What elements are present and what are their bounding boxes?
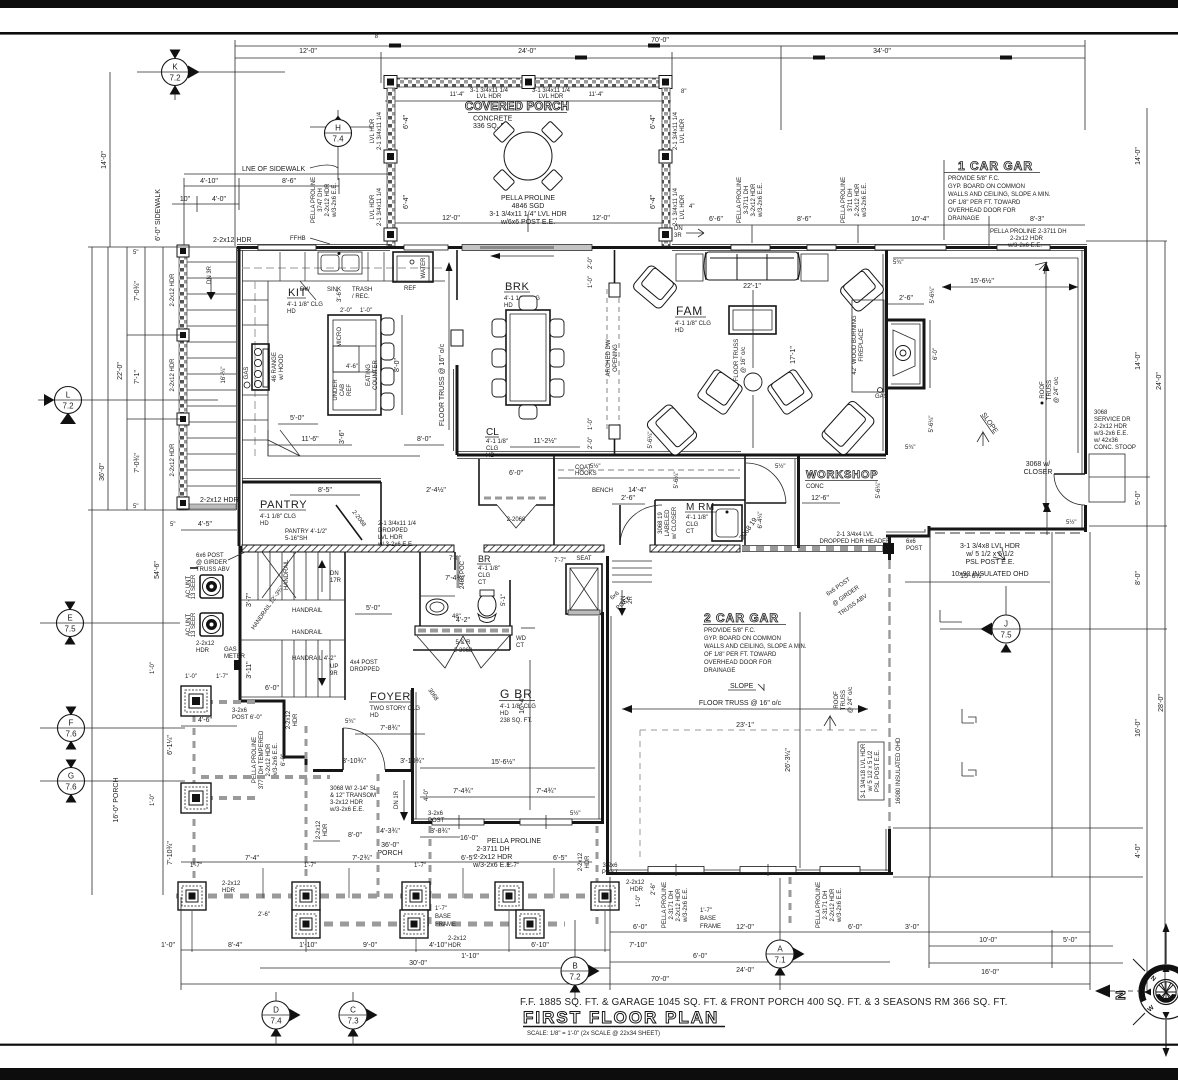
svg-text:OPENING: OPENING xyxy=(613,344,619,372)
svg-text:PELLA PROLINE: PELLA PROLINE xyxy=(487,838,541,845)
svg-text:HDR: HDR xyxy=(222,888,236,894)
svg-text:F.F. 1885 SQ. FT. & GARAGE 104: F.F. 1885 SQ. FT. & GARAGE 1045 SQ. FT. … xyxy=(520,997,1008,1008)
svg-text:2'-0": 2'-0" xyxy=(588,437,594,449)
svg-text:CLG: CLG xyxy=(686,522,699,528)
svg-text:POST: POST xyxy=(602,870,619,876)
fridge xyxy=(393,252,433,292)
svg-text:GYP. BOARD ON COMMON: GYP. BOARD ON COMMON xyxy=(948,184,1025,190)
svg-text:7.2: 7.2 xyxy=(62,402,74,411)
G BR south wall with windows xyxy=(411,815,604,829)
svg-text:7'-4¾": 7'-4¾" xyxy=(445,575,465,582)
svg-text:42" WOOD BURNING: 42" WOOD BURNING xyxy=(852,315,858,374)
svg-text:7.3: 7.3 xyxy=(347,1017,359,1026)
svg-text:2-2x12: 2-2x12 xyxy=(286,710,292,729)
svg-text:5¾": 5¾" xyxy=(893,260,903,266)
loveseat bottom-right rotated xyxy=(820,399,876,456)
svg-text:OF 1/8" PER FT. TOWARD: OF 1/8" PER FT. TOWARD xyxy=(948,200,1021,206)
svg-text:HD: HD xyxy=(500,711,509,717)
north wall (fam to garage) xyxy=(672,245,1087,251)
svg-text:CT: CT xyxy=(516,643,524,649)
svg-text:1'-7": 1'-7" xyxy=(435,906,447,912)
svg-text:w/ 5 1/2 x 5 1/2: w/ 5 1/2 x 5 1/2 xyxy=(868,750,874,792)
svg-text:LVL HDR: LVL HDR xyxy=(370,194,376,219)
svg-text:HDR: HDR xyxy=(630,887,644,893)
svg-text:TRUSS ABV: TRUSS ABV xyxy=(196,567,230,573)
deck left hatched rim xyxy=(179,247,187,510)
svg-text:11'-4": 11'-4" xyxy=(450,92,465,98)
svg-text:6'-4¼": 6'-4¼" xyxy=(758,512,764,529)
svg-text:3068 w/: 3068 w/ xyxy=(1026,461,1051,468)
svg-text:4'-1 1/8" CLG: 4'-1 1/8" CLG xyxy=(287,302,323,308)
svg-text:5": 5" xyxy=(133,250,138,256)
svg-text:HDR: HDR xyxy=(323,823,329,837)
svg-text:6'-0": 6'-0" xyxy=(693,953,707,960)
svg-text:1'-7": 1'-7" xyxy=(304,863,316,869)
svg-text:CT: CT xyxy=(686,529,694,535)
svg-text:FRAME: FRAME xyxy=(435,922,456,928)
svg-text:w/3-2x6 E.E.: w/3-2x6 E.E. xyxy=(332,183,338,218)
svg-text:DN: DN xyxy=(330,571,339,577)
svg-text:3'-10¾": 3'-10¾" xyxy=(342,758,366,765)
svg-text:A: A xyxy=(777,945,783,954)
svg-text:6'-0" SIDEWALK: 6'-0" SIDEWALK xyxy=(155,189,162,241)
svg-text:1'-7": 1'-7" xyxy=(414,863,426,869)
foyer south-west walls xyxy=(240,546,412,772)
svg-text:5¾": 5¾" xyxy=(345,719,355,725)
grid bubble K 7.2 xyxy=(137,50,285,101)
svg-text:7.5: 7.5 xyxy=(1000,631,1012,640)
svg-text:9R: 9R xyxy=(330,671,338,677)
svg-text:6'-4": 6'-4" xyxy=(650,195,657,209)
svg-text:4'-0": 4'-0" xyxy=(212,196,226,203)
svg-text:8'-0": 8'-0" xyxy=(1135,571,1142,585)
svg-text:3068: 3068 xyxy=(426,688,439,703)
svg-text:2 CAR GAR: 2 CAR GAR xyxy=(704,611,779,625)
svg-text:5'-0": 5'-0" xyxy=(1063,937,1077,944)
svg-text:3773 DH TEMPERED: 3773 DH TEMPERED xyxy=(259,730,265,789)
pocket door gray xyxy=(457,556,460,588)
up arrow xyxy=(1046,512,1048,535)
svg-text:4'-10": 4'-10" xyxy=(200,178,218,185)
svg-text:4'-3¾": 4'-3¾" xyxy=(380,828,400,835)
svg-text:HOOKS: HOOKS xyxy=(575,471,597,477)
svg-text:WATER: WATER xyxy=(421,257,427,279)
svg-text:4846 SGD: 4846 SGD xyxy=(512,203,545,210)
covered porch title xyxy=(465,101,569,130)
svg-text:1'-0": 1'-0" xyxy=(588,276,594,288)
svg-text:11'-6": 11'-6" xyxy=(301,436,319,443)
firebox xyxy=(893,330,915,376)
garage2 east wall xyxy=(886,536,890,875)
svg-text:w/ HOOD: w/ HOOD xyxy=(279,354,285,381)
laundry sink xyxy=(712,505,742,541)
grid bubble B 7.2 xyxy=(561,920,600,1000)
svg-text:6'-0": 6'-0" xyxy=(848,924,862,931)
svg-text:3068 19: 3068 19 xyxy=(658,512,664,534)
svg-text:3'-6": 3'-6" xyxy=(337,290,343,302)
svg-text:3'-7": 3'-7" xyxy=(246,593,253,607)
svg-text:E: E xyxy=(67,614,72,623)
UP arrow xyxy=(321,650,323,680)
svg-text:24'-0": 24'-0" xyxy=(736,967,754,974)
svg-text:w/3-2x6 E.E.: w/3-2x6 E.E. xyxy=(1093,431,1128,437)
svg-text:FRAME: FRAME xyxy=(700,924,721,930)
DN arrow xyxy=(318,560,326,568)
svg-text:3-2x6: 3-2x6 xyxy=(602,863,618,869)
loveseat bottom-left rotated xyxy=(645,403,698,457)
svg-text:FLOOR TRUSS: FLOOR TRUSS xyxy=(734,339,740,382)
svg-text:8'-6": 8'-6" xyxy=(282,178,296,185)
svg-text:2-2x12 HDR: 2-2x12 HDR xyxy=(170,273,176,307)
svg-text:5'-0": 5'-0" xyxy=(366,605,380,612)
side tables xyxy=(676,254,703,281)
svg-text:6x6: 6x6 xyxy=(609,590,621,601)
svg-text:3068: 3068 xyxy=(1094,410,1108,416)
svg-text:7.6: 7.6 xyxy=(65,730,77,739)
service door xyxy=(1054,473,1085,475)
left lower posts xyxy=(181,686,211,813)
walls xyxy=(419,552,421,628)
svg-text:4'-1 1/8" CLG: 4'-1 1/8" CLG xyxy=(675,321,711,327)
svg-text:DN: DN xyxy=(674,226,683,232)
svg-text:16'-0": 16'-0" xyxy=(460,835,478,842)
pella proline window note (left of porch) xyxy=(311,177,338,223)
svg-text:POST 6'-0": POST 6'-0" xyxy=(232,715,262,721)
svg-text:DRAINAGE: DRAINAGE xyxy=(948,216,979,222)
svg-text:5½": 5½" xyxy=(775,463,785,470)
driveway lines xyxy=(893,532,1143,990)
bottom gray sill xyxy=(187,504,236,509)
svg-text:DN 1R: DN 1R xyxy=(394,790,400,809)
svg-text:2-1 3/4x11 1/4: 2-1 3/4x11 1/4 xyxy=(377,187,383,226)
svg-text:2-2x12: 2-2x12 xyxy=(222,881,241,887)
workshop west wall xyxy=(795,455,799,548)
vertical gray dashed porch lines xyxy=(193,715,196,885)
svg-text:2-3171 DH: 2-3171 DH xyxy=(823,890,829,919)
svg-text:2'-0": 2'-0" xyxy=(340,308,352,314)
svg-text:w/ CLOSER: w/ CLOSER xyxy=(672,506,678,540)
svg-text:LVL HDR: LVL HDR xyxy=(370,118,376,143)
counter division ticks xyxy=(242,252,384,456)
svg-text:8'-0": 8'-0" xyxy=(348,832,362,839)
window dim strip above north wall xyxy=(676,224,1085,226)
svg-text:EATING: EATING xyxy=(366,364,372,386)
porch right wall (hatched) xyxy=(662,88,670,246)
2-2x12 HDR labels bottom xyxy=(222,880,721,949)
sheet border: bottom black band xyxy=(0,1068,1178,1080)
sidewalk dims 10" / 4'-0" xyxy=(172,196,239,212)
svg-text:OVERHEAD DOOR FOR: OVERHEAD DOOR FOR xyxy=(704,660,772,666)
svg-text:6'-4": 6'-4" xyxy=(403,115,410,129)
svg-text:6'-5": 6'-5" xyxy=(461,855,475,862)
svg-text:4x4 POST: 4x4 POST xyxy=(350,660,378,666)
svg-text:SERVICE DR: SERVICE DR xyxy=(1094,417,1131,423)
svg-text:PELLA PROLINE: PELLA PROLINE xyxy=(501,195,555,202)
svg-text:54'-6": 54'-6" xyxy=(154,561,161,579)
svg-text:OVERHEAD DOOR FOR: OVERHEAD DOOR FOR xyxy=(948,208,1016,214)
LVL HDR boxed note xyxy=(858,737,902,804)
svg-text:15'-6½": 15'-6½" xyxy=(970,277,994,285)
svg-text:1'-0": 1'-0" xyxy=(360,308,372,314)
36'-0" porch label xyxy=(313,820,591,871)
porch post low-right xyxy=(659,228,672,241)
garage2 west wall xyxy=(608,556,612,875)
svg-text:7'-4¾": 7'-4¾" xyxy=(453,788,473,795)
bottom 70'-0" dim xyxy=(181,897,1090,990)
svg-text:1'-0": 1'-0" xyxy=(150,794,156,806)
front door xyxy=(329,728,450,835)
svg-text:3-1 3/4x18 LVL HDR: 3-1 3/4x18 LVL HDR xyxy=(861,743,867,798)
post extension verticals xyxy=(192,868,605,952)
svg-text:PELLA PROLINE: PELLA PROLINE xyxy=(311,177,317,223)
svg-text:7'-4": 7'-4" xyxy=(245,855,259,862)
svg-text:HANDRAIL: HANDRAIL xyxy=(292,608,323,614)
svg-text:GAS: GAS xyxy=(244,367,250,380)
wall BRK/FAM with arched opening xyxy=(588,250,620,455)
svg-text:1'-7": 1'-7" xyxy=(216,674,228,680)
svg-text:5'-6¼": 5'-6¼" xyxy=(876,482,882,499)
svg-text:6'-0": 6'-0" xyxy=(509,470,523,477)
svg-text:14'-4": 14'-4" xyxy=(628,487,646,494)
svg-text:2-2068: 2-2068 xyxy=(350,510,366,529)
svg-text:3711 DH: 3711 DH xyxy=(848,188,854,211)
svg-text:7.6: 7.6 xyxy=(65,783,77,792)
svg-text:12'-6": 12'-6" xyxy=(811,495,829,502)
svg-text:8': 8' xyxy=(375,34,379,40)
FAM west wall segment xyxy=(451,250,463,455)
svg-text:8'-6": 8'-6" xyxy=(797,216,811,223)
svg-text:@ 24" o/c: @ 24" o/c xyxy=(1054,377,1060,403)
svg-text:MICRO: MICRO xyxy=(337,327,343,347)
svg-text:4'-1 1/8": 4'-1 1/8" xyxy=(486,439,508,445)
svg-text:2-2x12 HDR: 2-2x12 HDR xyxy=(830,888,836,922)
fireplace bump-out walls xyxy=(888,320,924,388)
svg-text:22'-1": 22'-1" xyxy=(743,283,761,290)
svg-text:11'-4": 11'-4" xyxy=(589,92,604,98)
svg-text:8'-0": 8'-0" xyxy=(417,436,431,443)
svg-text:G: G xyxy=(68,772,74,781)
svg-text:2-1 3/4x11 1/4: 2-1 3/4x11 1/4 xyxy=(377,111,383,150)
svg-text:6'-6": 6'-6" xyxy=(709,216,723,223)
svg-text:PANTRY 4'-1/2": PANTRY 4'-1/2" xyxy=(285,529,327,535)
svg-text:2-2x12 HDR: 2-2x12 HDR xyxy=(676,888,682,922)
svg-text:COUNTER: COUNTER xyxy=(373,360,379,390)
door from M RM to garage xyxy=(746,463,786,503)
svg-text:3-2x12 HDR: 3-2x12 HDR xyxy=(751,183,757,217)
svg-text:F: F xyxy=(69,719,74,728)
north wall behind porch with sliding door xyxy=(390,245,672,260)
14'-0" left top dim xyxy=(101,72,110,247)
porch strip posts xyxy=(177,245,189,509)
svg-text:17'-1": 17'-1" xyxy=(790,346,797,364)
svg-text:LVL HDR: LVL HDR xyxy=(680,194,686,219)
outward arrows xyxy=(1165,929,1167,1051)
bottom right dims xyxy=(929,877,1123,976)
svg-text:TRUSS: TRUSS xyxy=(1047,380,1053,400)
stoop xyxy=(1089,454,1125,502)
svg-text:2'-4½": 2'-4½" xyxy=(426,486,446,494)
svg-text:7'-0¾": 7'-0¾" xyxy=(134,281,141,301)
AC units xyxy=(186,568,223,637)
svg-text:L: L xyxy=(66,391,71,400)
svg-text:12'-0": 12'-0" xyxy=(442,215,460,222)
svg-text:3'-0": 3'-0" xyxy=(905,924,919,931)
svg-text:70'-0": 70'-0" xyxy=(651,37,669,44)
svg-text:TRUSS: TRUSS xyxy=(841,690,847,710)
svg-text:34'-0": 34'-0" xyxy=(873,48,891,55)
svg-text:3-1 3/4x8 LVL HDR: 3-1 3/4x8 LVL HDR xyxy=(960,543,1020,550)
sofa top xyxy=(704,252,800,280)
svg-text:3-2x12 HDR: 3-2x12 HDR xyxy=(330,800,364,806)
svg-text:BRK: BRK xyxy=(505,281,529,293)
svg-text:46 RANGE: 46 RANGE xyxy=(272,352,278,382)
svg-text:DROPPED: DROPPED xyxy=(350,667,380,673)
svg-text:HANDRAIL: HANDRAIL xyxy=(292,630,323,636)
post labels row xyxy=(181,855,618,876)
deck boards xyxy=(187,262,236,486)
svg-text:3'-6": 3'-6" xyxy=(339,430,346,444)
svg-text:FLOOR TRUSS @ 16" o/c: FLOOR TRUSS @ 16" o/c xyxy=(439,343,446,426)
svg-text:w/ 3-2x6 E.E.: w/ 3-2x6 E.E. xyxy=(377,542,414,548)
shower with seat xyxy=(554,556,602,615)
svg-text:1'-0": 1'-0" xyxy=(636,895,642,907)
svg-text:12'-0": 12'-0" xyxy=(736,924,754,931)
svg-text:2'-6": 2'-6" xyxy=(651,883,657,895)
svg-text:2-1 3/4x4 LVL: 2-1 3/4x4 LVL xyxy=(837,532,875,538)
svg-text:REF: REF xyxy=(404,286,416,292)
svg-text:GAS: GAS xyxy=(875,394,888,400)
svg-text:6'-5": 6'-5" xyxy=(553,855,567,862)
porch post top-mid xyxy=(522,76,535,89)
gas meter xyxy=(196,641,246,670)
svg-text:w/3-2x6 E.E.: w/3-2x6 E.E. xyxy=(683,888,689,923)
svg-text:LNE OF SIDEWALK: LNE OF SIDEWALK xyxy=(242,166,305,173)
svg-text:BENCH: BENCH xyxy=(592,488,613,494)
hall steps DN 2R to garage xyxy=(612,561,652,616)
grid bubble A 7.1 xyxy=(766,878,805,990)
svg-text:B: B xyxy=(572,962,577,971)
svg-text:4'-1 1/8" CLG: 4'-1 1/8" CLG xyxy=(260,514,296,520)
grid bubble J 7.5 xyxy=(940,586,1090,653)
svg-text:14'-0": 14'-0" xyxy=(101,151,108,169)
garage1 west jog wall xyxy=(886,526,929,536)
pella proline bottom note xyxy=(420,835,541,869)
svg-text:7.2: 7.2 xyxy=(169,74,181,83)
svg-text:POST: POST xyxy=(906,546,923,552)
svg-text:2'-6": 2'-6" xyxy=(621,495,635,502)
door to M RM arc xyxy=(620,505,662,545)
G BR west wall xyxy=(413,688,417,823)
svg-text:7'-10": 7'-10" xyxy=(629,942,647,949)
svg-text:CONC. STOOP: CONC. STOOP xyxy=(1094,445,1136,451)
svg-text:70'-0": 70'-0" xyxy=(651,976,669,983)
fireplace xyxy=(852,260,939,451)
svg-text:3068 W/ 2-14" SL: 3068 W/ 2-14" SL xyxy=(330,786,378,792)
svg-text:30'-0": 30'-0" xyxy=(409,960,427,967)
sheet border: bottom rule line xyxy=(0,1044,1178,1046)
upper flight treads xyxy=(258,552,330,600)
svg-text:w/3-2x6 E.E.: w/3-2x6 E.E. xyxy=(273,743,279,778)
svg-text:K: K xyxy=(172,63,178,72)
svg-text:DW: DW xyxy=(300,287,310,293)
posts row1 xyxy=(178,882,619,910)
svg-text:FIREPLACE: FIREPLACE xyxy=(859,328,865,361)
svg-text:M RM: M RM xyxy=(686,502,715,513)
foyer label xyxy=(345,691,425,734)
svg-text:PROVIDE 5/8" F.C.: PROVIDE 5/8" F.C. xyxy=(948,176,1000,182)
svg-text:C: C xyxy=(350,1006,356,1015)
svg-text:24'-0": 24'-0" xyxy=(518,48,536,55)
svg-text:TRASH: TRASH xyxy=(352,287,372,293)
svg-text:1'-7": 1'-7" xyxy=(190,863,202,869)
svg-text:@ 16" o/c: @ 16" o/c xyxy=(741,347,747,373)
svg-text:HANDRAIL 12'-3¾": HANDRAIL 12'-3¾" xyxy=(251,585,286,631)
svg-text:1'-7": 1'-7" xyxy=(700,908,712,914)
svg-text:2-2x12 HDR: 2-2x12 HDR xyxy=(213,237,252,244)
svg-text:6'-0": 6'-0" xyxy=(281,754,287,766)
svg-text:ARCHED DW: ARCHED DW xyxy=(606,339,612,376)
svg-text:5½": 5½" xyxy=(1066,519,1076,526)
chair mid-right rotated xyxy=(766,368,813,415)
svg-text:1'-0": 1'-0" xyxy=(185,674,197,680)
garage inner wall lines xyxy=(893,257,1078,259)
porch top wall (hatched) xyxy=(385,78,671,101)
chair mid-left rotated xyxy=(696,368,743,415)
svg-text:2'-6": 2'-6" xyxy=(258,912,270,918)
svg-text:w/6x6 POST E.E.: w/6x6 POST E.E. xyxy=(500,219,555,226)
svg-text:6x6 POST: 6x6 POST xyxy=(196,553,224,559)
svg-text:16'-4": 16'-4" xyxy=(519,696,526,714)
svg-text:5'-0": 5'-0" xyxy=(1135,491,1142,505)
gray dashed post line row1 xyxy=(176,894,622,899)
svg-text:DROPPED HDR HEADER: DROPPED HDR HEADER xyxy=(819,539,891,545)
svg-text:2-2x12 HDR: 2-2x12 HDR xyxy=(325,183,331,217)
svg-text:3-3711 DH: 3-3711 DH xyxy=(744,186,750,215)
svg-text:w/ 5 1/2 x 5 1/2: w/ 5 1/2 x 5 1/2 xyxy=(965,551,1014,558)
linen / 5&R closet band xyxy=(415,617,512,703)
svg-text:10'-0": 10'-0" xyxy=(979,937,997,944)
dim line 12/24/34 xyxy=(235,34,1085,130)
svg-text:16080 INSULATED OHD: 16080 INSULATED OHD xyxy=(896,737,902,804)
svg-text:4'-0": 4'-0" xyxy=(424,789,430,801)
svg-text:WALLS AND CEILING, SLOPE A MIN: WALLS AND CEILING, SLOPE A MIN. xyxy=(948,192,1051,198)
svg-text:SCALE: 1/8" = 1'-0" (2x SCALE: SCALE: 1/8" = 1'-0" (2x SCALE @ 22x34 SH… xyxy=(527,1031,660,1037)
svg-text:J: J xyxy=(1004,620,1008,629)
grid bubble L 7.2 xyxy=(38,387,218,425)
svg-text:HD: HD xyxy=(504,303,513,309)
svg-text:7.4: 7.4 xyxy=(270,1017,282,1026)
6x6 post at firewall/garage corner xyxy=(883,543,894,554)
svg-text:LVL HDR: LVL HDR xyxy=(477,94,502,100)
svg-text:7'-2¾": 7'-2¾" xyxy=(352,855,372,862)
hearth inside FAM xyxy=(852,300,884,392)
svg-text:METER: METER xyxy=(224,654,246,660)
sheet border: top black band xyxy=(0,0,1178,8)
6x6 post note at garage wall xyxy=(609,577,868,618)
23'-1" dashed rect xyxy=(639,730,641,860)
pantry door diagonal xyxy=(336,505,362,540)
svg-text:CLG: CLG xyxy=(478,573,491,579)
svg-text:FAM: FAM xyxy=(676,304,703,318)
svg-text:23'-1": 23'-1" xyxy=(736,722,754,729)
posts row2 xyxy=(292,910,544,938)
CL closet walls xyxy=(479,459,554,528)
svg-text:5'-6¼": 5'-6¼" xyxy=(930,287,936,304)
KIT label xyxy=(287,287,323,315)
svg-text:2-2x12: 2-2x12 xyxy=(196,641,215,647)
roof truss arrow line xyxy=(1045,262,1047,512)
svg-text:2-2x12 HDR: 2-2x12 HDR xyxy=(170,358,176,392)
